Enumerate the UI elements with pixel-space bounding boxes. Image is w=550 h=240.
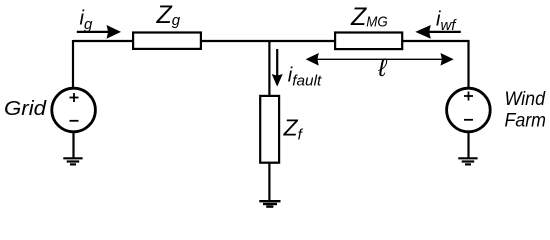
ground (center, below Zf) bbox=[259, 201, 280, 206]
wire: left vertical drop from top bus to Grid source bbox=[72, 40, 74, 89]
minus terminal of Grid source bbox=[70, 120, 79, 122]
ground (right, below Wind Farm source) bbox=[458, 158, 477, 164]
voltage source V1 (Grid) bbox=[52, 88, 96, 132]
wire: Grid source to ground bbox=[72, 131, 74, 158]
svg-text:Zf: Zf bbox=[283, 115, 304, 144]
wire: Wind Farm source to ground bbox=[467, 131, 469, 158]
svg-text:Zg: Zg bbox=[156, 1, 181, 29]
resistor Zmg bbox=[335, 33, 402, 50]
wire: Zf to ground bbox=[268, 163, 270, 202]
resistor Zf bbox=[260, 96, 279, 163]
wire: right vertical drop from top bus to Wind Farm source bbox=[467, 40, 469, 89]
dimension arrow: line length l bbox=[306, 53, 454, 66]
wire: top bus from grid branch to wind-farm branch bbox=[73, 40, 469, 42]
plus terminal of Grid source bbox=[70, 93, 79, 102]
svg-text:Wind: Wind bbox=[505, 88, 547, 110]
svg-text:Farm: Farm bbox=[505, 110, 547, 132]
svg-text:ig: ig bbox=[80, 7, 93, 33]
minus terminal of Wind Farm source bbox=[464, 119, 473, 121]
wire: fault branch vertical from bus to Zf bbox=[268, 41, 270, 96]
plus terminal of Wind Farm source bbox=[464, 92, 473, 101]
voltage source V2 (Wind Farm) bbox=[447, 88, 491, 132]
current arrow i_wf bbox=[415, 25, 461, 39]
svg-text:ifault: ifault bbox=[288, 65, 322, 90]
svg-text:ZMG: ZMG bbox=[350, 3, 388, 31]
current arrow i_g bbox=[77, 25, 121, 39]
svg-text:iwf: iwf bbox=[436, 9, 457, 35]
ground (left, below Grid source) bbox=[63, 158, 82, 164]
current arrow i_fault bbox=[272, 49, 283, 87]
resistor Zg bbox=[133, 33, 201, 49]
svg-text:Grid: Grid bbox=[4, 97, 47, 120]
svg-text:ℓ: ℓ bbox=[377, 54, 387, 82]
